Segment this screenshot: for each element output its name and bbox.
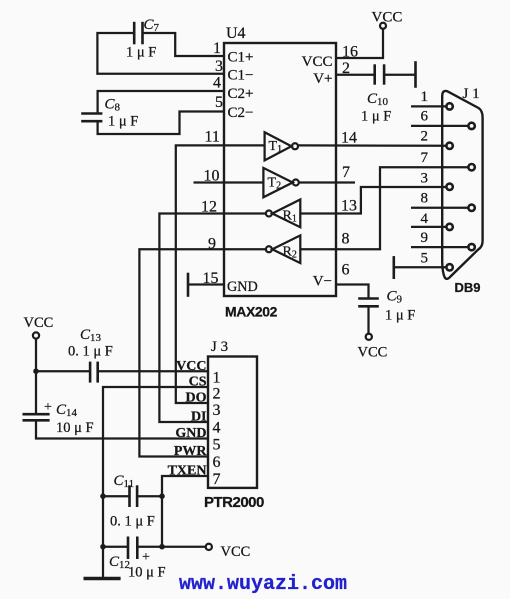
svg-text:0. 1 μ F: 0. 1 μ F xyxy=(110,514,155,530)
svg-text:T2: T2 xyxy=(268,176,282,192)
svg-text:C1+: C1+ xyxy=(228,50,254,66)
svg-text:C10: C10 xyxy=(367,91,389,108)
wire C7 left plate to pin 3 xyxy=(97,33,224,74)
J3 pin numbers xyxy=(213,370,221,489)
wire junction down to C14 xyxy=(35,371,37,414)
svg-text:DI: DI xyxy=(191,410,207,425)
svg-text:GND: GND xyxy=(227,279,258,295)
J1 pin number labels xyxy=(421,89,429,267)
svg-text:13: 13 xyxy=(341,198,357,215)
wire pin 11 to J3 DO xyxy=(176,145,265,403)
svg-text:1 μ F: 1 μ F xyxy=(126,45,156,61)
capacitor C11 xyxy=(130,485,138,507)
wire pin 12 to J3 DI xyxy=(159,214,265,423)
svg-text:10 μ F: 10 μ F xyxy=(128,565,166,581)
wire C14 bottom to J3 GND xyxy=(36,420,208,438)
wire T1 out to DB9 pin 2 xyxy=(298,144,446,147)
wire J3 CS to ground rail xyxy=(103,387,208,579)
ground xyxy=(84,577,121,581)
wire pin 7 stub xyxy=(299,181,355,183)
svg-text:C8: C8 xyxy=(105,97,121,114)
wire pin 2 to C10 xyxy=(336,74,375,76)
svg-text:C13: C13 xyxy=(80,327,102,344)
capacitor C9 xyxy=(358,299,379,307)
wire C7 right plate to pin 1 xyxy=(143,33,225,56)
svg-text:7: 7 xyxy=(213,471,221,488)
wire pin 15 GND xyxy=(188,283,224,285)
wire pin 13 to DB9 pin 3 xyxy=(300,187,446,214)
svg-text:C1−: C1− xyxy=(228,68,254,84)
svg-text:1 μ F: 1 μ F xyxy=(108,114,138,130)
J1 pin circles xyxy=(446,103,474,270)
svg-text:1: 1 xyxy=(421,89,429,105)
wire C10 right xyxy=(384,74,415,76)
capacitor C13 xyxy=(90,362,98,383)
svg-text:0. 1 μ F: 0. 1 μ F xyxy=(68,344,113,360)
junction TXEN C12 xyxy=(159,544,165,550)
capacitor C10 xyxy=(375,64,384,84)
buffer T1 xyxy=(265,132,298,160)
wire J3 TXEN down xyxy=(162,476,208,547)
wire C9 to VCC xyxy=(367,306,369,334)
svg-text:6: 6 xyxy=(213,454,221,471)
svg-text:VCC: VCC xyxy=(372,10,403,26)
svg-text:9: 9 xyxy=(208,236,216,253)
svg-text:+: + xyxy=(142,550,150,565)
svg-text:VCC: VCC xyxy=(24,315,54,331)
svg-text:C2+: C2+ xyxy=(228,86,254,102)
module J3 PTR2000 body xyxy=(208,357,257,488)
svg-text:5: 5 xyxy=(421,251,429,267)
svg-text:DB9: DB9 xyxy=(455,280,481,295)
svg-text:12: 12 xyxy=(201,199,217,216)
buffer R2 xyxy=(266,235,300,263)
svg-text:CS: CS xyxy=(189,375,207,390)
buffer R1 xyxy=(266,200,300,228)
svg-text:4: 4 xyxy=(213,75,221,92)
svg-text:MAX202: MAX202 xyxy=(225,304,278,320)
connector J1 DB9 shell xyxy=(442,91,482,279)
J1 stub wires xyxy=(411,106,468,247)
J3 pin labels xyxy=(168,359,208,479)
svg-text:5: 5 xyxy=(213,437,221,454)
svg-text:2: 2 xyxy=(342,60,350,77)
svg-text:V+: V+ xyxy=(313,71,332,87)
svg-text:3: 3 xyxy=(421,171,429,187)
svg-text:GND: GND xyxy=(175,426,206,441)
svg-text:R1: R1 xyxy=(283,209,297,225)
svg-text:J 3: J 3 xyxy=(211,339,228,355)
svg-text:C2−: C2− xyxy=(228,105,254,121)
wire DB9 pin 5 xyxy=(394,266,446,268)
pin 15 terminator bar xyxy=(187,273,190,297)
svg-text:U4: U4 xyxy=(226,25,246,42)
svg-text:10: 10 xyxy=(204,168,220,185)
svg-text:6: 6 xyxy=(421,109,429,125)
svg-text:6: 6 xyxy=(342,262,350,279)
svg-text:DO: DO xyxy=(186,391,207,406)
svg-text:4: 4 xyxy=(213,420,221,437)
wire pin 9 to J3 PWR xyxy=(139,249,265,456)
svg-text:C11: C11 xyxy=(114,473,135,490)
svg-text:15: 15 xyxy=(203,270,219,287)
svg-text:V−: V− xyxy=(313,274,332,290)
IC U4 MAX202 body xyxy=(224,43,336,296)
wire VCC down to junction xyxy=(35,339,37,372)
wire pin 8 to DB9 pin 7 xyxy=(300,167,468,249)
wire pin 10 stub to T2 input xyxy=(194,181,264,183)
svg-text:7: 7 xyxy=(421,150,429,166)
wire junction to C13 xyxy=(36,370,90,372)
wire C12 row xyxy=(103,546,128,548)
svg-text:5: 5 xyxy=(215,94,223,111)
svg-text:3: 3 xyxy=(213,402,221,419)
capacitor C12 xyxy=(128,537,137,560)
svg-text:1 μ F: 1 μ F xyxy=(385,308,415,324)
svg-text:8: 8 xyxy=(421,191,429,207)
svg-text:4: 4 xyxy=(421,211,429,227)
wire C11 row xyxy=(103,495,130,497)
capacitor C7 xyxy=(134,22,142,45)
svg-text:2: 2 xyxy=(213,386,221,403)
svg-text:2: 2 xyxy=(421,129,429,145)
junction rail C11 xyxy=(100,493,106,499)
svg-text:C7: C7 xyxy=(144,17,160,34)
capacitor C14 polarized xyxy=(23,414,50,420)
svg-text:VCC: VCC xyxy=(221,544,251,560)
svg-text:16: 16 xyxy=(342,44,358,61)
svg-text:+: + xyxy=(44,400,52,415)
svg-text:J 1: J 1 xyxy=(463,86,480,102)
svg-text:9: 9 xyxy=(421,230,429,246)
svg-text:VCC: VCC xyxy=(358,345,388,361)
VCC terminal C12 xyxy=(206,544,212,550)
svg-text:1: 1 xyxy=(213,40,221,57)
svg-text:1 μ F: 1 μ F xyxy=(361,109,391,125)
wire C13 to J3 VCC xyxy=(98,370,208,372)
wire pin 6 V- to C9 xyxy=(336,285,369,299)
svg-text:7: 7 xyxy=(342,164,350,181)
DB9 pin5 terminator bar xyxy=(392,256,395,279)
svg-text:R2: R2 xyxy=(283,245,297,261)
svg-text:C14: C14 xyxy=(56,402,78,419)
VCC terminal C9 xyxy=(366,334,372,340)
svg-text:3: 3 xyxy=(215,58,223,75)
svg-text:VCC: VCC xyxy=(302,54,333,70)
junction VCC/C13/C14 xyxy=(33,368,39,374)
C10 terminator bar xyxy=(414,61,417,88)
svg-text:PTR2000: PTR2000 xyxy=(204,494,264,511)
svg-text:11: 11 xyxy=(205,129,220,146)
svg-text:8: 8 xyxy=(342,231,350,248)
svg-text:TXEN: TXEN xyxy=(168,464,207,479)
svg-text:C9: C9 xyxy=(387,289,403,306)
svg-text:10 μ F: 10 μ F xyxy=(56,420,94,436)
svg-text:www.wuyazi.com: www.wuyazi.com xyxy=(179,573,347,596)
svg-text:14: 14 xyxy=(341,130,357,147)
junction TXEN C11 xyxy=(159,493,165,499)
wire C8 bottom to pin 5 xyxy=(98,112,224,135)
svg-text:PWR: PWR xyxy=(174,444,208,459)
wire VCC to pin 16 xyxy=(336,29,383,58)
svg-text:VCC: VCC xyxy=(176,359,206,374)
svg-text:1: 1 xyxy=(213,370,221,387)
wire pin 4 to C8 top xyxy=(98,91,224,114)
buffer T2 xyxy=(263,168,298,197)
capacitor C8 xyxy=(81,114,102,122)
junction rail C12 xyxy=(100,544,106,550)
